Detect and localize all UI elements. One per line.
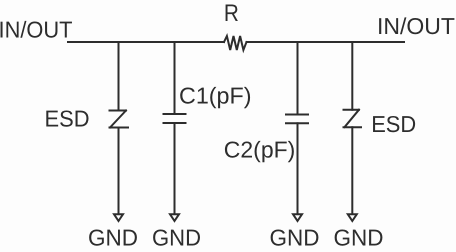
svg-text:GND: GND — [88, 224, 138, 250]
wire: C2 branch upper — [297, 42, 299, 115]
capacitor C2 — [286, 115, 308, 124]
capacitor C1 — [164, 114, 186, 123]
ground arrow 2 — [170, 214, 179, 221]
svg-text:ESD: ESD — [371, 111, 416, 137]
wire: right ESD branch upper — [351, 42, 353, 110]
svg-text:GND: GND — [334, 224, 384, 250]
svg-text:C2(pF): C2(pF) — [224, 137, 295, 163]
svg-text:IN/OUT: IN/OUT — [377, 13, 455, 39]
wire: C1 branch upper — [174, 42, 176, 114]
svg-text:ESD: ESD — [45, 106, 90, 132]
svg-text:IN/OUT: IN/OUT — [0, 17, 73, 43]
ground arrow 1 — [114, 214, 123, 221]
wire: left ESD branch lower — [118, 128, 120, 214]
wire: left ESD branch upper — [118, 42, 120, 110]
ground arrow 3 — [293, 214, 302, 221]
svg-text:GND: GND — [152, 224, 201, 250]
wire: C2 branch lower — [297, 123, 299, 214]
wire: C1 branch lower — [174, 123, 176, 214]
wire: top rail right segment (resistor to IN/OUT right) — [247, 41, 405, 43]
svg-text:C1(pF): C1(pF) — [179, 82, 252, 108]
ground arrow 4 — [348, 214, 357, 221]
svg-text:GND: GND — [270, 224, 320, 250]
wire: right ESD branch lower — [351, 127, 353, 214]
svg-text:R: R — [224, 0, 239, 27]
resistor R — [224, 36, 247, 50]
ESD device right (Z symbol) — [344, 110, 362, 128]
wire: top rail left segment (IN/OUT left to resistor) — [68, 41, 224, 43]
ESD device left (Z symbol) — [110, 111, 129, 128]
